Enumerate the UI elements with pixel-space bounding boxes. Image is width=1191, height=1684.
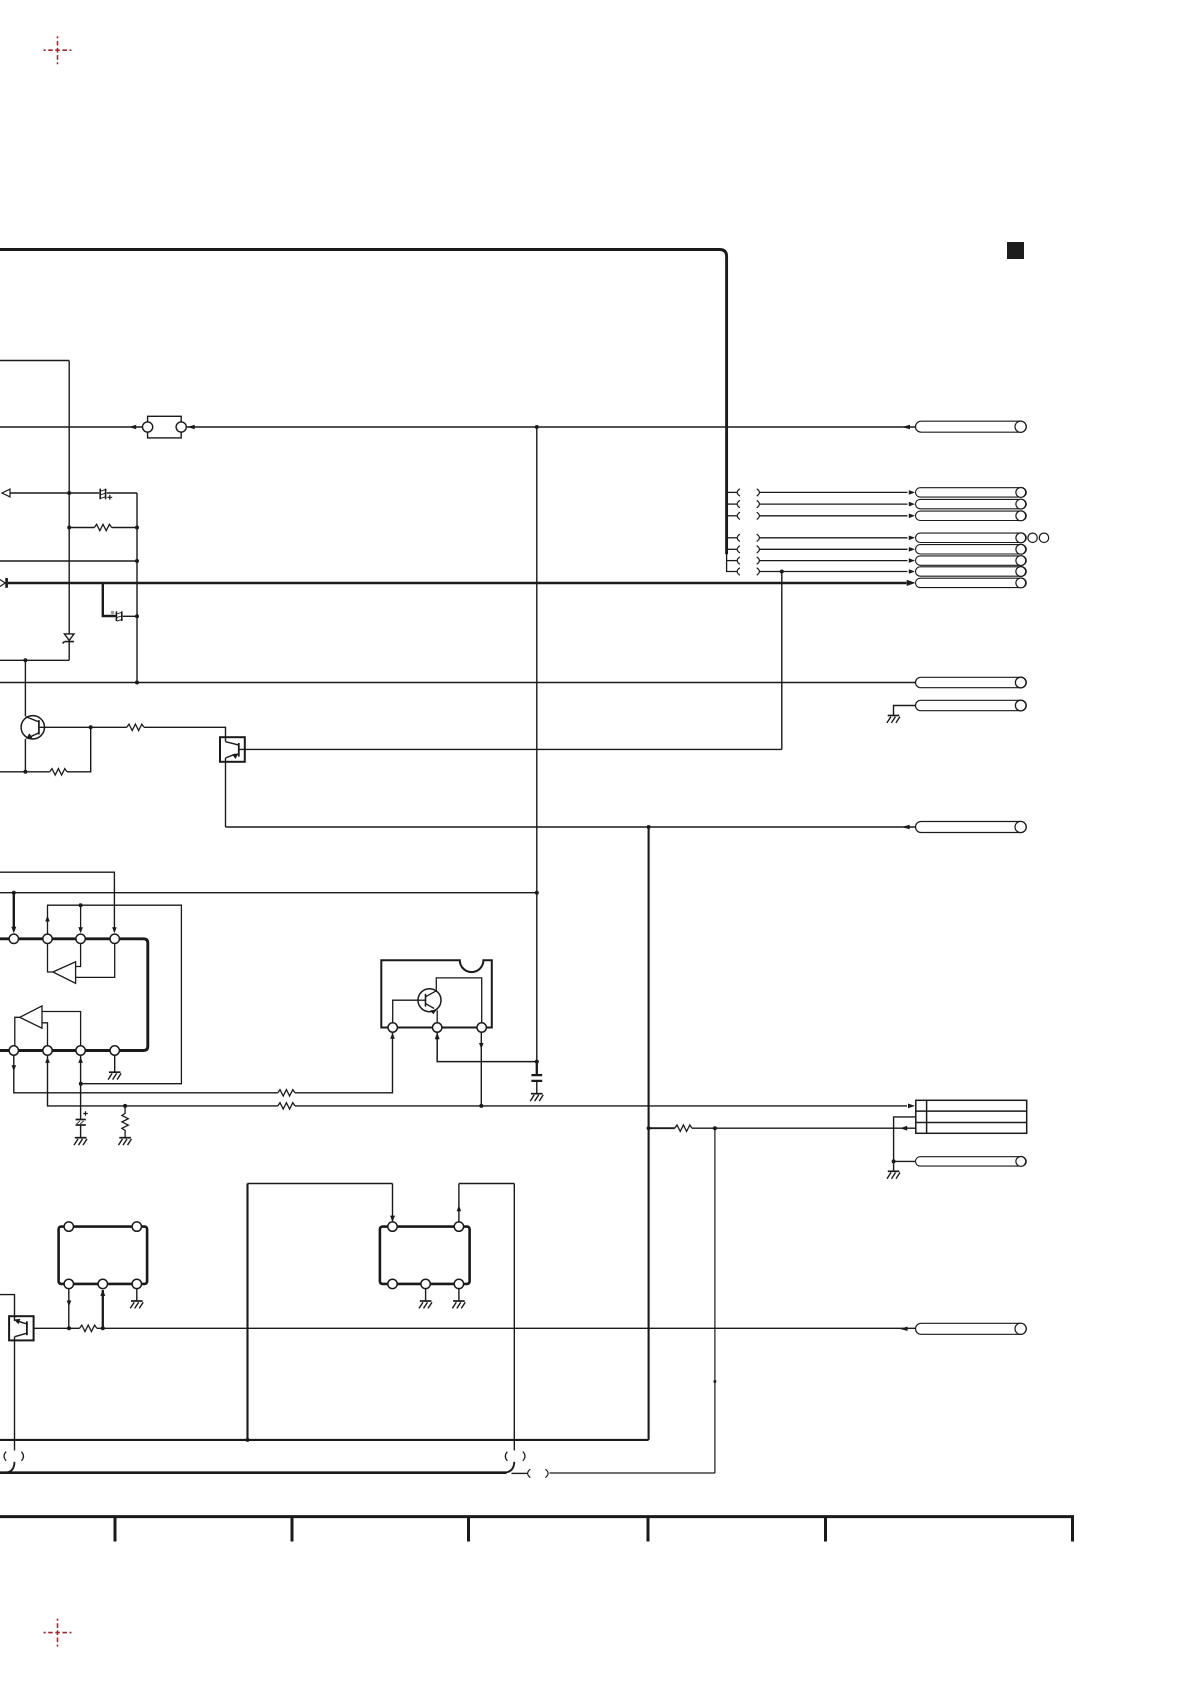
arrow right of jumper (188, 425, 195, 429)
ground under IC4 pin c (452, 1301, 465, 1308)
arrow up on pin7 wire (78, 1057, 83, 1063)
buffer triangle A (53, 962, 76, 984)
wire J row2 stub down to pill node (894, 1117, 916, 1162)
IC1 pin5 wire down and 1093 line (14, 1055, 278, 1093)
arrow down on pin5 wire (12, 1065, 17, 1071)
resistor to ground x125.1 (122, 1106, 128, 1138)
wire thick drop x102.8 to cap (103, 583, 116, 616)
wire thick y583 to connector (8, 582, 907, 585)
jumper pin circle right (176, 422, 186, 432)
wire big vertical x536.8 (536, 427, 538, 1062)
IC1 pin8 ground stub (114, 1055, 116, 1072)
capacitor C-series on y493 (100, 489, 105, 500)
open arrow left end y493 (2, 489, 10, 497)
node dot x536.8 y1061.6 (535, 1060, 539, 1064)
node dot x137 y561 (135, 559, 139, 563)
ground under IC4 pin b (419, 1301, 432, 1308)
connector pair row y560.6 (727, 557, 915, 564)
plus mark of C-series y493 (107, 495, 112, 500)
IC4 pin circles (388, 1222, 397, 1231)
node dot x137 y527 (135, 526, 139, 530)
arrow up into IC2 pin1 (390, 1033, 395, 1039)
connector pair on x14.5 break (4, 1452, 24, 1461)
wire opto1 output y749 (239, 748, 782, 750)
connector pill y492.4 (916, 488, 1027, 498)
ruler tick 5 (824, 1518, 827, 1542)
wire pin3 to buffer A side (76, 944, 81, 967)
polarized capacitor x80.6 (76, 1120, 86, 1138)
IC3 ground stub (136, 1289, 138, 1301)
wire y772 with resistor (0, 771, 50, 773)
arrow down into IC1 pin3 (78, 927, 83, 933)
arrow up into IC2 pin2 (435, 1033, 440, 1039)
arrow big into pill row8 (907, 580, 916, 586)
node dot x648.6 y827 (647, 825, 651, 829)
wire y1128.2 from x648.6 junction (649, 1127, 675, 1129)
node dot x69 y493 (67, 491, 71, 495)
IC4 box (380, 1227, 470, 1284)
IC1 pin1 feed thick (13, 893, 15, 931)
wire y1128.2 to connector box row3 (692, 1127, 916, 1129)
IC3 pin b feed thick (102, 1290, 104, 1328)
wire pin4 to buffer A input (76, 944, 115, 978)
connector pair row y571.5 with stub from bus bottom (727, 554, 915, 575)
wire vertical x781.8 rows to opto line (781, 572, 783, 750)
resistor on y1106 (278, 1103, 295, 1109)
node dot x25 y772 (23, 770, 27, 774)
connector pill y1161.4 (916, 1157, 1027, 1167)
IC4 right pin wire up (458, 1184, 460, 1222)
jumper component body (148, 416, 182, 438)
node dot x125.1 y1106 (123, 1104, 127, 1108)
resistor on y527 (94, 524, 111, 530)
connector pill y537.8 (916, 533, 1027, 543)
wire y892.7 (0, 892, 537, 894)
IC1 pin6 wire down and 1106 line (48, 1055, 278, 1106)
arrow down on IC3 pin a wire (67, 1301, 72, 1307)
wire buffer B to pin7 (42, 1012, 81, 1046)
wire y1328.3 to pill (97, 1327, 916, 1329)
wire stub y1473.4 to node (512, 1472, 527, 1474)
connector pill y560.6 (916, 556, 1027, 566)
ground at pill y705.5 (887, 716, 900, 723)
wire node to pill y1161.4 (894, 1160, 916, 1162)
IC2 internal wires (393, 978, 482, 1023)
black index square (1007, 242, 1024, 259)
arrow up on IC4 right pin wire (457, 1205, 462, 1211)
arrow down into IC1 pin1 (11, 927, 16, 933)
node dot x13.8 y892.7 (12, 891, 16, 895)
plus mark polarized cap (83, 1111, 87, 1115)
ground below cap x536.8 (530, 1094, 543, 1101)
wire pin2 to buffer A apex (48, 944, 53, 972)
arrow up on x47.5 (45, 916, 50, 922)
arrow left on y1328.3 (899, 1327, 907, 1331)
connector pair row y537.8 (727, 534, 915, 541)
curve break to thick bottom left (7, 1462, 15, 1473)
ruler tick 4 (647, 1518, 650, 1542)
wire thick bottom y1472.7 (0, 1471, 507, 1474)
IC2 pin3 wire down to y1106 (480, 1032, 482, 1106)
arrow left into y427 wire (902, 425, 910, 429)
drawing layer: center section (0, 427, 915, 1145)
wire vertical x714.9 down (714, 1128, 716, 1473)
wire stub pill y705.5 to ground (894, 706, 916, 716)
jumper pin circle left (143, 422, 153, 432)
IC1 pin circles row1 (9, 934, 18, 943)
open arrow and bar at left end y583 (0, 579, 5, 588)
ground under resistor x125.1 (119, 1138, 132, 1145)
drawing layer: bottom section (0, 827, 1074, 1542)
node dot x69 y1328.3 (67, 1326, 71, 1330)
connector pill y1328.8 (916, 1323, 1027, 1334)
node dot x81 y1083.7 (79, 1082, 83, 1086)
node dot x648.6 y1128.2 (647, 1126, 651, 1130)
wire y1473 left from x714.9 (550, 1472, 715, 1474)
wire y493 (10, 492, 137, 494)
IC2 pin circles (388, 1023, 397, 1032)
node dot x102.8 y1328.3 (101, 1326, 105, 1330)
optocoupler U-opto1 (220, 737, 245, 762)
resistor on y1128.2 (675, 1125, 692, 1131)
connector pill y582.9 (916, 578, 1027, 588)
wire top-left box horizontal (0, 360, 69, 362)
IC2 pin2 wire to big vertical (437, 1032, 537, 1061)
node dot x25 y660 (23, 658, 27, 662)
IC1 pin3 feed (80, 905, 82, 932)
node dot x714.9 y1128.2 (713, 1126, 717, 1130)
ruler tick 3 (467, 1518, 470, 1542)
wire resistor to optocoupler (144, 727, 226, 737)
diode D1 on x69 (63, 634, 74, 643)
ground under IC3 pin c (130, 1301, 143, 1308)
node dot x137 y616 (135, 614, 139, 618)
IC1 pin7 wire down to cap (80, 1055, 82, 1119)
wire thick top bus with rounded corner down (0, 250, 727, 555)
wire y427 right segment to connector (186, 426, 915, 428)
connector pill y571.5 (916, 567, 1027, 577)
wire y1106 to connector box (295, 1105, 907, 1107)
arrow down into IC4 left pin (390, 1216, 395, 1222)
wire opto2 output y1328.3 (34, 1327, 80, 1329)
wire y1093 to IC2 pin1 (295, 1033, 393, 1093)
wire Q1 base to resistor (39, 726, 127, 728)
wire vertical x514.3 from 1183.5 (513, 1184, 515, 1451)
wire y427 left segment (0, 426, 143, 428)
IC3 pin circles (64, 1222, 73, 1231)
connector pair on y1473 (528, 1469, 549, 1477)
connector pill y515.8 (916, 511, 1027, 521)
ground under x893.6 (887, 1171, 900, 1178)
node dot x481.3 y1106 (479, 1104, 483, 1108)
resistor on y1093 (278, 1090, 295, 1096)
opto2 emitter wire down (14, 1340, 16, 1450)
registration mark bottom-left (44, 1619, 72, 1647)
connector pair on x514.3 break (505, 1452, 525, 1461)
node dot big vertical top (535, 425, 539, 429)
wire vertical x648.6 down to bottom rail (648, 827, 650, 1440)
buffer triangle B (20, 1006, 42, 1028)
IC3 pin a wire down (68, 1289, 70, 1329)
wire y561 (0, 560, 137, 562)
capacitor at x536.8 bottom (531, 1062, 542, 1094)
optocoupler U-opto2 (9, 1316, 33, 1340)
node dot x536.8 y892.7 (535, 891, 539, 895)
capacitor C-series on y616 (116, 611, 121, 621)
connector pill y426.7 (916, 421, 1027, 432)
arrow up on pin6 wire (45, 1057, 50, 1063)
wire cap to x137 (123, 615, 137, 617)
wire y1183.5 (248, 1183, 515, 1185)
wire buffer B apex to pin5 (15, 1017, 20, 1046)
arrow right into connector box row1 (908, 1104, 915, 1109)
wire opto1 emitter down to y827 (225, 762, 227, 827)
arrow left on y1128.2 (900, 1126, 907, 1131)
arrow left of jumper (129, 425, 136, 429)
wire opto2 input from left edge (0, 1295, 15, 1317)
arrow left on y827 (902, 825, 910, 829)
connector pill y705.5 (916, 700, 1027, 711)
resistor base series y727 (127, 724, 144, 730)
wire y527 right part (112, 527, 137, 529)
extra circle B right of pill y537.8 (1039, 533, 1048, 542)
node dot x714.9 y1381.5 (713, 1380, 716, 1383)
connector pair row y549.3 (727, 546, 915, 553)
node dot x893.6 y1161.4 (892, 1159, 896, 1163)
node dot x247.5 y1439.9 (246, 1438, 250, 1442)
IC4 ground stubs (426, 1289, 459, 1301)
connector pill y504.1 (916, 499, 1027, 509)
ground under cap x80.6 (74, 1138, 87, 1145)
connector pair row y504.1 (727, 500, 915, 507)
wire vertical x137 (136, 493, 138, 683)
curve node up to break x514.3 (506, 1462, 515, 1473)
arrow down on IC2 pin3 wire (479, 1043, 484, 1049)
ground stub x893.6 (893, 1161, 895, 1171)
IC4 pin feed left (392, 1184, 394, 1222)
resistor emitter y772 (50, 769, 67, 775)
ground under pin8 (108, 1072, 121, 1079)
wire y682 to pill (0, 682, 916, 684)
wire y872 and pin4 feed (0, 872, 114, 932)
wire bottom rail y1439.9 (0, 1439, 649, 1441)
IC3 box (59, 1227, 148, 1284)
wire y527 with resistor (69, 527, 94, 529)
connector pill y549.3 (916, 544, 1027, 554)
IC2 regulator box with notch (381, 960, 492, 1027)
node dot x781.8 y571.5 (780, 570, 784, 574)
wire buffer B to pin6 (42, 1023, 48, 1046)
ruler tick 2 (291, 1518, 294, 1542)
IC1 pin circles row2 (9, 1046, 18, 1055)
node dot x137 y682 (135, 681, 139, 685)
gray polarity dot of C y616 (111, 611, 114, 614)
connector pair row y492.4 (727, 489, 915, 496)
wire y772 right and up to base node (67, 727, 91, 772)
connector pill y682.5 (916, 677, 1027, 688)
IC1 thick bus loop (0, 939, 148, 1051)
registration mark top-left (44, 36, 72, 64)
node dot x80.6 y905.2 (79, 903, 83, 907)
ruler base line (0, 1515, 1074, 1518)
wire vertical x69 (68, 361, 70, 661)
IC2 internal transistor (418, 989, 441, 1015)
connector box J right (916, 1100, 1027, 1133)
arrow up into IC3 pin b (100, 1290, 105, 1296)
wire y660 (0, 659, 69, 661)
node dot x69 y527 (67, 526, 71, 530)
transistor Q1 (21, 660, 44, 772)
connector pill y827 (916, 821, 1027, 832)
ruler end tick (1071, 1518, 1074, 1542)
ruler tick 1 (114, 1518, 117, 1542)
IC1 feedback box wire (48, 905, 182, 1083)
wire y827 to pill (226, 826, 916, 828)
connector pair row y515.8 (727, 512, 915, 519)
node dot x90.7 y727 (89, 725, 93, 729)
wire vertical x247.5 (246, 1184, 248, 1440)
arrow down into IC1 pin4 (112, 927, 117, 933)
extra circle A right of pill y537.8 (1028, 533, 1037, 542)
resistor on y1328.3 (80, 1325, 97, 1331)
